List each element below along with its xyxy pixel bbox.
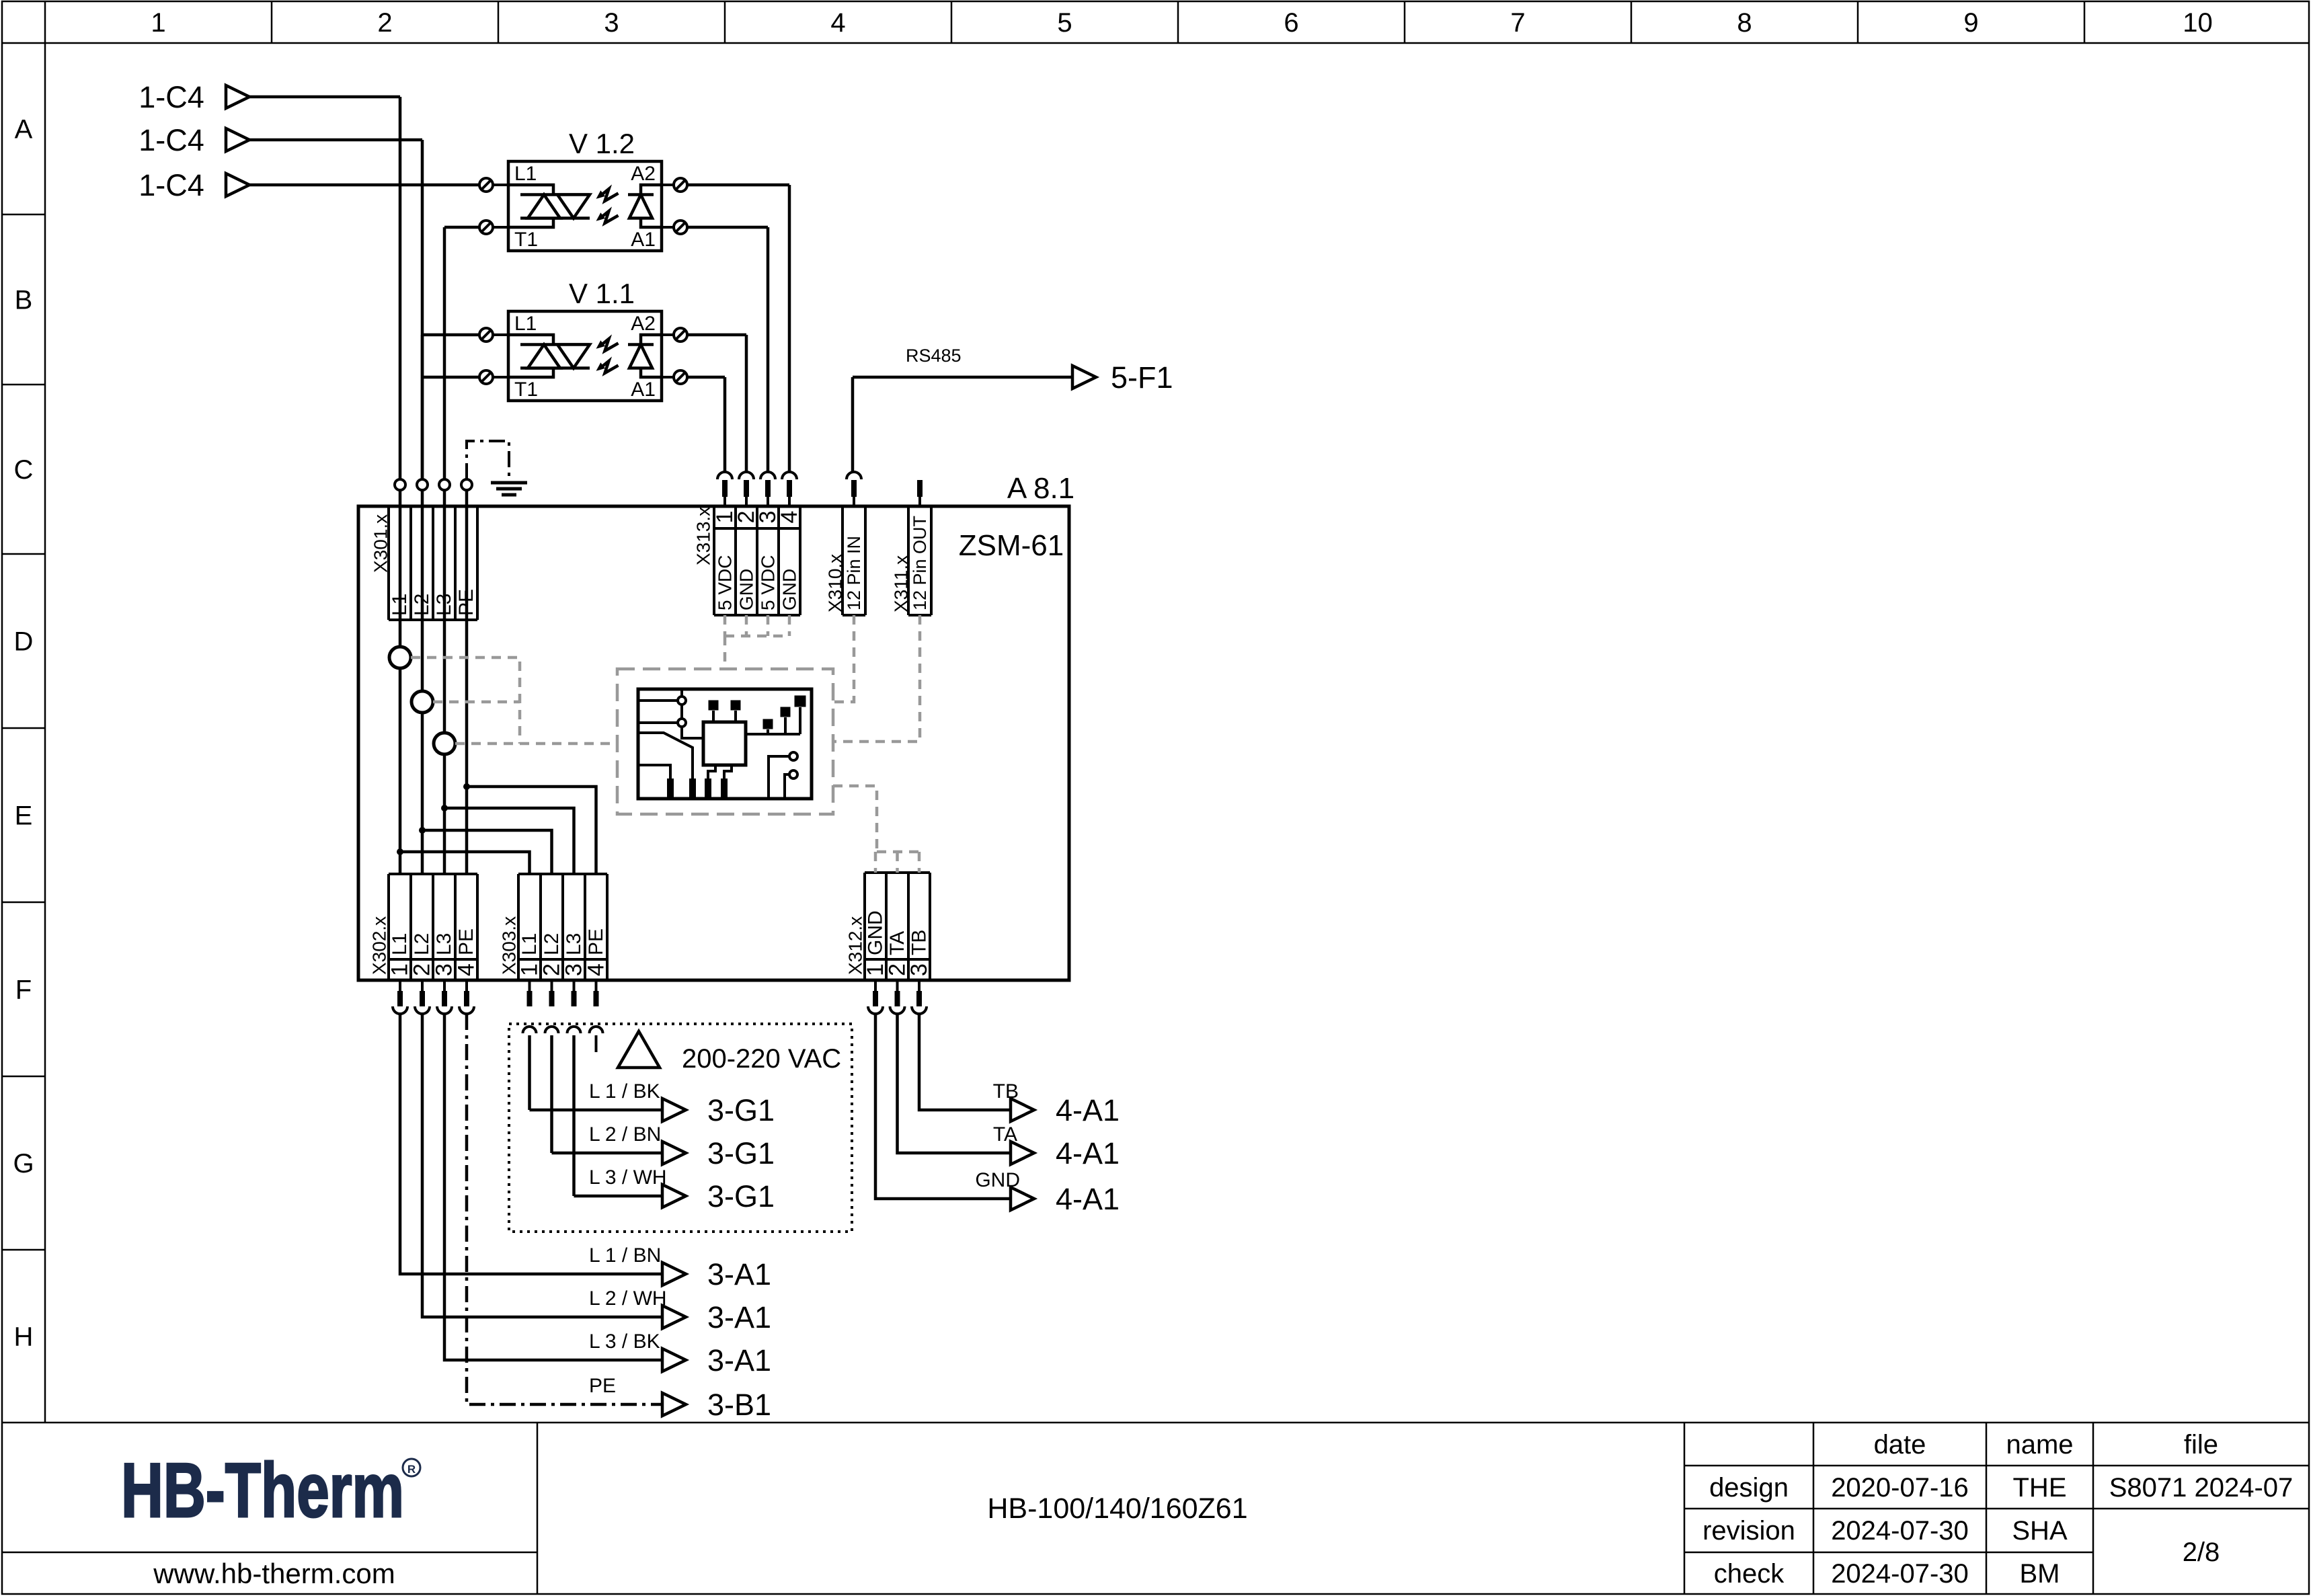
svg-text:TB: TB [908,930,931,955]
svg-text:A: A [15,115,33,145]
svg-text:name: name [2006,1430,2073,1460]
svg-text:date: date [1874,1430,1926,1460]
svg-text:file: file [2184,1430,2218,1460]
svg-text:3-G1: 3-G1 [707,1179,775,1213]
svg-text:check: check [1714,1559,1785,1589]
svg-text:1-C4: 1-C4 [139,168,204,202]
svg-text:E: E [15,801,33,831]
svg-text:L2: L2 [411,933,433,955]
svg-text:revision: revision [1702,1516,1795,1546]
svg-text:3-A1: 3-A1 [707,1343,771,1378]
svg-text:L1: L1 [514,313,537,335]
svg-text:1: 1 [151,8,165,38]
svg-text:H: H [14,1322,34,1352]
svg-text:3: 3 [906,963,932,976]
svg-text:RS485: RS485 [906,346,962,366]
svg-text:4-A1: 4-A1 [1056,1093,1120,1127]
svg-text:BM: BM [2020,1559,2060,1589]
svg-text:X312.x: X312.x [845,916,866,975]
svg-text:GND: GND [779,569,800,610]
svg-text:L 2 / WH: L 2 / WH [589,1287,667,1310]
svg-text:B: B [15,286,33,315]
svg-text:S8071 2024-07: S8071 2024-07 [2109,1473,2294,1503]
svg-text:ZSM-61: ZSM-61 [959,529,1064,562]
svg-text:A2: A2 [631,313,656,335]
svg-text:G: G [13,1149,34,1179]
svg-text:9: 9 [1963,8,1978,38]
svg-text:V 1.1: V 1.1 [569,278,635,309]
svg-text:L1: L1 [389,933,411,955]
svg-text:A2: A2 [631,163,656,185]
svg-text:8: 8 [1737,8,1752,38]
svg-text:3-G1: 3-G1 [707,1093,775,1127]
svg-text:2024-07-30: 2024-07-30 [1831,1559,1969,1589]
svg-text:TA: TA [993,1123,1017,1146]
svg-text:F: F [15,975,32,1005]
svg-text:L 3 / BK: L 3 / BK [589,1330,660,1353]
svg-text:4: 4 [584,963,609,976]
svg-text:L1: L1 [518,933,541,955]
svg-text:10: 10 [2183,8,2213,38]
svg-text:2/8: 2/8 [2183,1538,2220,1567]
svg-text:3: 3 [604,8,619,38]
svg-text:A1: A1 [631,378,656,401]
svg-text:4: 4 [454,963,479,976]
svg-text:X303.x: X303.x [499,916,520,975]
svg-text:L 3 / WH: L 3 / WH [589,1166,667,1189]
svg-text:X311.x: X311.x [891,555,912,612]
svg-text:A 8.1: A 8.1 [1007,472,1074,505]
svg-text:A1: A1 [631,229,656,251]
svg-text:6: 6 [1284,8,1298,38]
svg-text:GND: GND [975,1169,1020,1191]
svg-text:1-C4: 1-C4 [139,123,204,157]
svg-text:T1: T1 [514,229,538,251]
svg-text:PE: PE [585,928,607,955]
svg-text:12 Pin IN: 12 Pin IN [844,536,864,610]
svg-text:12 Pin OUT: 12 Pin OUT [910,516,930,610]
svg-text:L 2 / BN: L 2 / BN [589,1123,661,1146]
svg-text:4-A1: 4-A1 [1056,1136,1120,1170]
svg-text:design: design [1709,1473,1789,1503]
svg-text:L 1 / BN: L 1 / BN [589,1244,661,1267]
svg-text:THE: THE [2013,1473,2067,1503]
svg-text:X301.x: X301.x [370,514,391,573]
svg-text:5: 5 [1057,8,1072,38]
svg-text:GND: GND [736,569,757,610]
svg-text:L 1 / BK: L 1 / BK [589,1080,660,1103]
svg-text:R: R [407,1463,416,1476]
svg-text:L3: L3 [563,933,585,955]
svg-text:SHA: SHA [2012,1516,2068,1546]
svg-text:3-G1: 3-G1 [707,1136,775,1170]
svg-text:X310.x: X310.x [825,554,846,612]
svg-text:www.hb-therm.com: www.hb-therm.com [153,1558,395,1589]
svg-text:5-F1: 5-F1 [1111,360,1173,395]
svg-text:1-C4: 1-C4 [139,80,204,114]
svg-text:PE: PE [589,1375,616,1397]
svg-text:V 1.2: V 1.2 [569,128,635,159]
svg-text:4-A1: 4-A1 [1056,1182,1120,1216]
svg-text:GND: GND [865,910,887,955]
svg-text:HB-100/140/160Z61: HB-100/140/160Z61 [987,1492,1247,1525]
svg-text:L1: L1 [514,163,537,185]
svg-text:PE: PE [455,928,477,955]
svg-text:5 VDC: 5 VDC [758,555,779,610]
svg-text:7: 7 [1510,8,1525,38]
svg-text:D: D [14,627,34,657]
svg-text:3-A1: 3-A1 [707,1257,771,1291]
svg-text:2: 2 [377,8,392,38]
svg-text:X313.x: X313.x [693,507,714,565]
svg-text:C: C [14,455,34,485]
svg-text:4: 4 [777,511,802,524]
svg-text:200-220 VAC: 200-220 VAC [682,1044,841,1074]
svg-text:2020-07-16: 2020-07-16 [1831,1473,1969,1503]
svg-text:2024-07-30: 2024-07-30 [1831,1516,1969,1546]
svg-text:4: 4 [830,8,845,38]
svg-text:X302.x: X302.x [369,916,390,975]
svg-text:3-B1: 3-B1 [707,1388,771,1422]
svg-text:L3: L3 [433,933,455,955]
svg-text:HB-Therm: HB-Therm [121,1448,404,1533]
svg-text:5 VDC: 5 VDC [715,555,736,610]
svg-text:TB: TB [993,1080,1019,1103]
svg-text:3-A1: 3-A1 [707,1300,771,1334]
svg-text:T1: T1 [514,378,538,401]
svg-text:TA: TA [886,931,908,955]
svg-text:L2: L2 [541,933,563,955]
